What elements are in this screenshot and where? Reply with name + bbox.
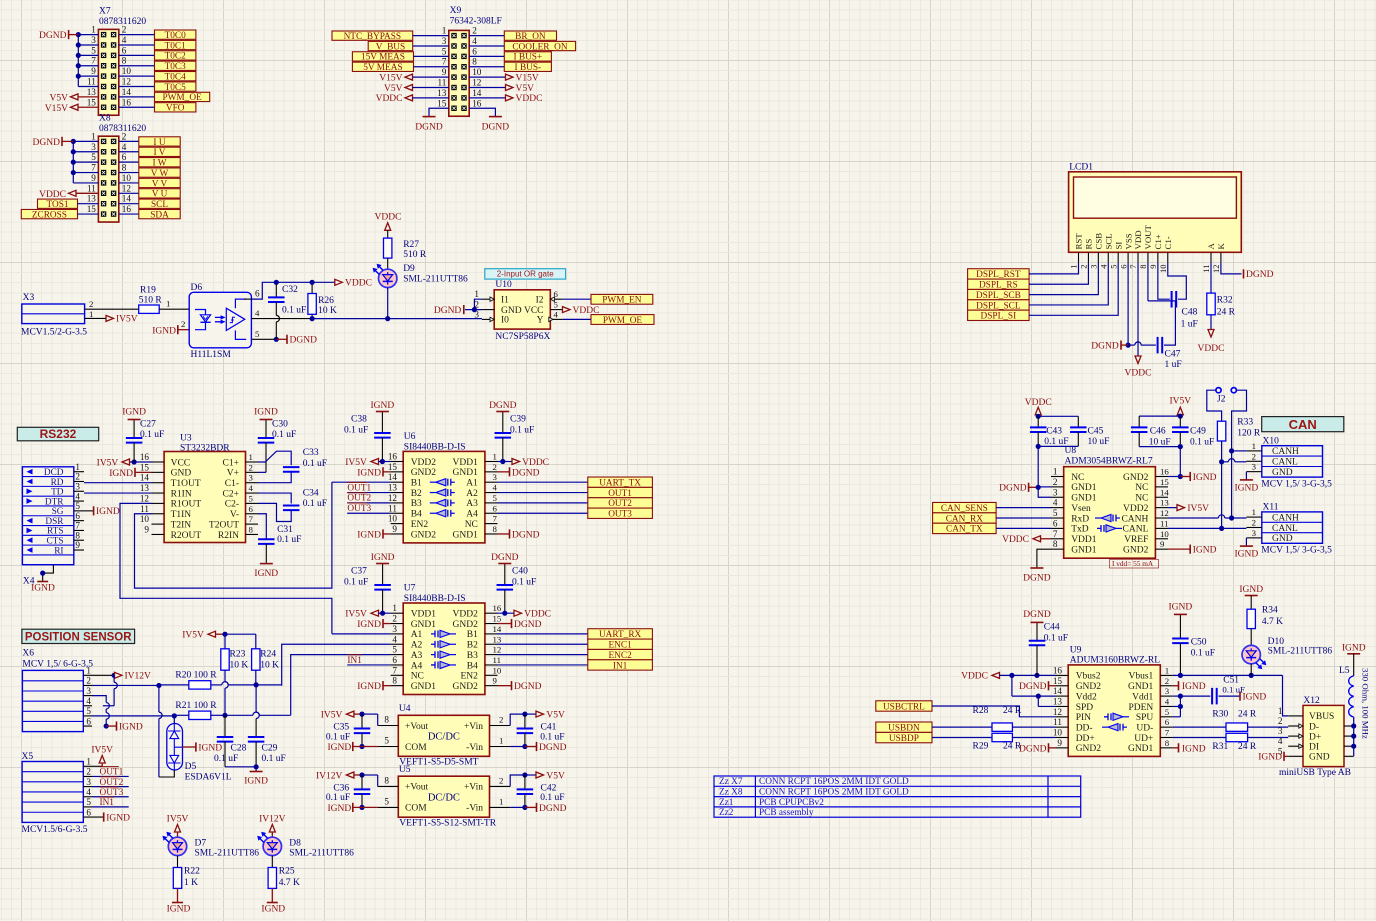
svg-text:16: 16 (122, 97, 132, 107)
svg-text:C37: C37 (351, 567, 367, 577)
wire R20 output to U7 A2 (211, 682, 282, 688)
svg-text:10 K: 10 K (260, 661, 279, 671)
wire U7 B1 (498, 633, 588, 635)
resistor R22 1 K (173, 856, 200, 889)
svg-text:SDA: SDA (150, 210, 169, 220)
power port V5V at X9 pin12 (469, 84, 534, 94)
svg-text:VDDC: VDDC (961, 672, 988, 682)
svg-text:GND: GND (1309, 753, 1330, 763)
net label PWM_OE (155, 92, 210, 103)
power port IGND at X10 (1235, 480, 1259, 493)
svg-text:C36: C36 (333, 783, 349, 793)
svg-text:A3: A3 (411, 651, 423, 661)
svg-text:C43: C43 (1046, 426, 1062, 436)
svg-text:7: 7 (91, 163, 96, 173)
svg-text:9: 9 (1148, 265, 1158, 269)
power port DGND at U6 GND1 pin2 (498, 467, 540, 478)
svg-text:13: 13 (87, 87, 97, 97)
svg-text:IGND: IGND (244, 777, 268, 787)
svg-text:Vbus2: Vbus2 (1076, 672, 1101, 682)
svg-text:5: 5 (392, 645, 397, 655)
connector X7 0878311620 (87, 7, 147, 116)
svg-text:11: 11 (1201, 265, 1211, 273)
svg-text:R1IN: R1IN (171, 489, 192, 499)
svg-text:VDDC: VDDC (345, 279, 372, 289)
power supply U4 VEFT1-S5-D5-SMT (378, 704, 511, 768)
jumper J2 (1207, 388, 1247, 451)
svg-text:GND1: GND1 (453, 468, 479, 478)
svg-text:IGND: IGND (1169, 603, 1193, 613)
wire DGND to U10 pins 1,2 (465, 299, 482, 312)
wire CANH net to X10 pin1 (1229, 448, 1246, 453)
power port IV5V at U3 VCC (97, 458, 130, 468)
svg-text:24 R: 24 R (1238, 710, 1257, 720)
svg-text:ESDA6V1L: ESDA6V1L (185, 773, 232, 783)
svg-text:R28: R28 (973, 706, 989, 716)
svg-text:1: 1 (493, 452, 497, 462)
svg-text:D10: D10 (1268, 637, 1285, 647)
connector X10 MCV 1,5/ 3-G-3,5 (1246, 437, 1332, 490)
wire X3 pin2 to R19 (85, 308, 139, 310)
svg-text:COM: COM (405, 743, 427, 753)
net label OUT3 (588, 508, 653, 519)
resistor R24 10 K (252, 649, 280, 671)
svg-text:IGND: IGND (371, 553, 395, 563)
svg-text:5: 5 (384, 736, 389, 746)
svg-text:DGND: DGND (1023, 610, 1051, 620)
wire U7 A3 from R21 (291, 655, 391, 716)
wire X6 pin5 to R21 (92, 713, 177, 718)
power port VDDC at X9 pin13 (376, 94, 449, 104)
net label SDA (139, 209, 180, 220)
svg-text:1: 1 (91, 25, 96, 35)
power port IGND above C38 (371, 401, 395, 412)
svg-text:A1: A1 (466, 479, 478, 489)
svg-text:EN2: EN2 (411, 520, 429, 530)
svg-text:11: 11 (1160, 518, 1168, 528)
svg-text:5: 5 (86, 797, 91, 807)
svg-text:V5V: V5V (546, 771, 565, 781)
svg-text:6: 6 (1165, 717, 1170, 727)
svg-text:DGND: DGND (33, 138, 61, 148)
wire X10 GND to IGND (1245, 472, 1247, 480)
svg-text:V15V: V15V (45, 104, 68, 114)
svg-text:Zz X8: Zz X8 (719, 788, 743, 798)
svg-text:SI8440BB-D-IS: SI8440BB-D-IS (404, 443, 466, 453)
power port IGND above R34 (1239, 585, 1263, 609)
svg-text:MCV1.5/6-G-3.5: MCV1.5/6-G-3.5 (22, 825, 88, 835)
svg-text:2: 2 (493, 462, 497, 472)
svg-text:U8: U8 (1065, 446, 1077, 456)
net label ENC2 (588, 649, 653, 660)
power port IGND above C50 (1169, 603, 1193, 615)
svg-text:DGND: DGND (539, 743, 567, 753)
net label ZCROSS at X8 pin15 (21, 209, 98, 220)
wire DSPL_RS to LCD pin2 (1029, 263, 1088, 285)
svg-text:DCD: DCD (44, 468, 64, 478)
capacitor C27 0.1 uF (126, 419, 164, 462)
capacitor C28 0.1 uF (214, 715, 247, 767)
svg-text:NC7SP58P6X: NC7SP58P6X (495, 332, 550, 342)
svg-text:1: 1 (499, 797, 503, 807)
svg-text:GND2: GND2 (1076, 744, 1102, 754)
svg-text:UD+: UD+ (1134, 734, 1153, 744)
net label USBDP (876, 732, 992, 743)
svg-text:U6: U6 (404, 432, 416, 442)
svg-text:DGND: DGND (489, 401, 517, 411)
svg-text:15: 15 (388, 462, 398, 472)
power port V15V at X7 pin15 (45, 104, 99, 114)
svg-text:GND: GND (1272, 468, 1293, 478)
svg-text:IN1: IN1 (613, 661, 628, 671)
power port VDDC below R32 (1198, 330, 1225, 355)
svg-text:GND: GND (501, 306, 522, 316)
svg-text:R2IN: R2IN (218, 531, 239, 541)
svg-text:2: 2 (122, 25, 127, 35)
svg-text:SML-211UTT86: SML-211UTT86 (1268, 646, 1333, 656)
ground DGND below X9 right (482, 117, 510, 133)
wire R19 to D6 pin1 (159, 299, 189, 310)
svg-text:IN1: IN1 (347, 656, 362, 666)
svg-text:B4: B4 (467, 661, 478, 671)
power port VDDC above C43 (1025, 398, 1052, 417)
svg-text:3: 3 (1252, 528, 1257, 538)
net label 5V MEAS (352, 62, 448, 73)
svg-text:USBCTRL: USBCTRL (883, 702, 925, 712)
svg-text:X7: X7 (99, 7, 111, 17)
wire X8 pin4 (119, 151, 139, 153)
power port DGND above C39 (489, 401, 517, 412)
svg-text:R34: R34 (1262, 606, 1278, 616)
svg-text:CANH: CANH (1121, 514, 1148, 524)
svg-text:RI: RI (54, 546, 63, 556)
svg-text:5: 5 (249, 493, 254, 503)
svg-text:C30: C30 (272, 419, 288, 429)
isolator U6 SI8440BB-D-IS (388, 432, 498, 543)
svg-text:C47: C47 (1165, 349, 1181, 359)
svg-text:16: 16 (1160, 467, 1169, 477)
svg-text:0.1 uF: 0.1 uF (540, 732, 564, 742)
wire C28 C29 common to IGND (225, 764, 259, 771)
resistor R30 24 R (1173, 710, 1257, 732)
svg-text:VDDC: VDDC (1198, 344, 1225, 354)
wire CANL net to X10 pin2 (1222, 459, 1247, 462)
svg-text:2: 2 (89, 299, 93, 309)
svg-text:11: 11 (437, 78, 446, 88)
svg-text:4: 4 (392, 634, 397, 644)
svg-text:V15V: V15V (516, 73, 539, 83)
svg-text:C45: C45 (1088, 426, 1104, 436)
svg-text:VCC: VCC (524, 306, 544, 316)
svg-text:MCV 1,5/ 3-G-3,5: MCV 1,5/ 3-G-3,5 (1261, 546, 1332, 556)
svg-text:12: 12 (1053, 707, 1063, 717)
svg-text:OUT2: OUT2 (347, 494, 371, 504)
svg-text:15: 15 (87, 204, 97, 214)
svg-text:GND1: GND1 (453, 530, 479, 540)
svg-text:VDD2: VDD2 (1123, 504, 1149, 514)
svg-text:8: 8 (384, 776, 389, 786)
svg-text:Zz1: Zz1 (719, 798, 734, 808)
power port V5V at U5 +Vin (510, 771, 565, 786)
LED D9 SML-211UTT86 (373, 258, 468, 321)
svg-text:B1: B1 (411, 479, 422, 489)
svg-text:C1-: C1- (225, 479, 239, 489)
svg-text:0.1 uF: 0.1 uF (510, 425, 534, 435)
LED D10 SML-211UTT86 (1242, 629, 1332, 676)
svg-text:miniUSB Type AB: miniUSB Type AB (1279, 768, 1351, 778)
ground DGND below X9 left (415, 117, 443, 133)
resistor R25 4.7 K (268, 856, 300, 889)
svg-text:OUT1: OUT1 (100, 768, 124, 778)
capacitor C47 1 uF (1128, 301, 1182, 370)
svg-text:COM: COM (405, 804, 427, 814)
wire X11 GND to IGND (1245, 538, 1247, 546)
power port IGND at U9 GND1 pin8 (1173, 743, 1206, 754)
connector X5 MCV1.5/6-G-3.5 (22, 752, 93, 835)
svg-text:DGND: DGND (1023, 574, 1051, 584)
svg-text:DGND: DGND (1019, 744, 1047, 754)
svg-text:3: 3 (1053, 487, 1058, 497)
svg-text:10 uF: 10 uF (1149, 437, 1171, 447)
svg-text:C31: C31 (277, 525, 293, 535)
svg-text:DGND: DGND (999, 484, 1027, 494)
power port DGND at D6 pin5 (276, 335, 317, 346)
power port IV5V at U7 VDD1 (345, 610, 390, 620)
svg-text:ZCROSS: ZCROSS (32, 210, 67, 220)
svg-text:B2: B2 (411, 489, 422, 499)
svg-text:L5: L5 (1339, 666, 1350, 676)
svg-text:OUT2: OUT2 (100, 778, 124, 788)
svg-text:C28: C28 (231, 744, 247, 754)
svg-text:14: 14 (122, 87, 132, 97)
svg-text:C48: C48 (1182, 307, 1198, 317)
svg-text:C27: C27 (140, 419, 156, 429)
net label 15V MEAS (352, 52, 448, 63)
svg-text:DSR: DSR (45, 517, 64, 527)
net label I W (139, 158, 180, 169)
svg-text:1: 1 (75, 462, 80, 472)
svg-text:X5: X5 (22, 752, 34, 762)
svg-text:R25: R25 (279, 867, 295, 877)
svg-text:IGND: IGND (122, 408, 146, 418)
svg-text:IGND: IGND (261, 905, 285, 915)
svg-text:D5: D5 (185, 762, 197, 772)
power port IV12V at U5 +Vout (316, 771, 378, 786)
net label V U (139, 189, 180, 200)
TVS diode D5 ESDA6V1L (167, 724, 232, 783)
capacitor C48 1 uF (1158, 263, 1198, 330)
net label T0C3 (155, 61, 196, 72)
svg-text:EN2: EN2 (460, 672, 478, 682)
resistor R32 24 R (1207, 263, 1236, 318)
svg-text:0.1 uF: 0.1 uF (277, 535, 301, 545)
net label I BUS- (469, 62, 551, 73)
svg-text:IGND: IGND (152, 326, 176, 336)
svg-text:A2: A2 (411, 641, 423, 651)
svg-text:11: 11 (1053, 717, 1062, 727)
power port IGND at C51 (1240, 692, 1266, 703)
svg-text:GND1: GND1 (411, 682, 437, 692)
capacitor C43 0.1 uF (1030, 414, 1069, 449)
svg-text:14: 14 (1160, 487, 1169, 497)
svg-text:DC/DC: DC/DC (428, 792, 460, 803)
svg-text:5: 5 (442, 46, 447, 56)
svg-text:4: 4 (493, 483, 498, 493)
capacitor C30 0.1 uF (258, 419, 297, 472)
svg-text:2: 2 (1278, 716, 1283, 726)
resistor R20 100 R (159, 671, 217, 690)
svg-text:6: 6 (86, 716, 91, 726)
svg-text:IV5V: IV5V (321, 710, 343, 720)
svg-text:SI: SI (1113, 242, 1123, 250)
svg-text:SCL: SCL (1103, 233, 1113, 249)
capacitor C41 0.1 uF at U4 (510, 714, 564, 749)
svg-text:B2: B2 (467, 641, 478, 651)
svg-text:24 R: 24 R (1217, 307, 1236, 317)
svg-text:9: 9 (493, 676, 498, 686)
wire D6 pin5 to DGND (252, 329, 279, 342)
svg-text:VDD: VDD (1133, 230, 1143, 249)
LCD module LCD1 (1069, 162, 1242, 273)
power port VDDC at U6 VDD1 (498, 458, 550, 468)
power port IGND at X12 GND (1258, 752, 1288, 763)
wire X4 RD to U3 T1OUT (84, 482, 152, 484)
net label I BUS+ (469, 52, 551, 63)
svg-text:SI8440BB-D-IS: SI8440BB-D-IS (404, 594, 466, 604)
wire X8 pin8 (119, 172, 139, 174)
svg-text:GND1: GND1 (1071, 545, 1097, 555)
svg-text:8: 8 (472, 57, 477, 67)
svg-text:+Vout: +Vout (405, 722, 428, 732)
svg-text:PDEN: PDEN (1128, 703, 1153, 713)
svg-text:V V: V V (152, 179, 168, 189)
svg-text:IGND: IGND (254, 408, 278, 418)
svg-text:CONN RCPT 16POS 2MM IDT GOLD: CONN RCPT 16POS 2MM IDT GOLD (759, 788, 909, 798)
power port V5V at X7 pin13 (50, 94, 99, 104)
svg-text:GND1: GND1 (1071, 494, 1097, 504)
svg-text:7: 7 (392, 665, 397, 675)
svg-text:T2IN: T2IN (171, 520, 192, 530)
svg-text:8: 8 (1138, 265, 1148, 269)
svg-text:2: 2 (392, 614, 397, 624)
svg-text:1: 1 (1165, 665, 1169, 675)
svg-text:9: 9 (75, 540, 80, 550)
power port VDDC at X8 pin11 (39, 190, 98, 200)
svg-text:J2: J2 (1217, 395, 1226, 405)
svg-text:0.1 uF: 0.1 uF (272, 430, 296, 440)
svg-text:U5: U5 (399, 765, 411, 775)
wire LCD VOUT to C47 (1147, 263, 1149, 301)
wire X7 pin6 (119, 54, 155, 56)
wire R32 to VDDC (1210, 315, 1212, 331)
svg-text:14: 14 (122, 194, 132, 204)
svg-text:GND2: GND2 (453, 620, 479, 630)
svg-text:1: 1 (86, 666, 91, 676)
svg-text:IGND: IGND (198, 743, 222, 753)
svg-text:0.1 uF: 0.1 uF (262, 754, 286, 764)
note I vdd= 55 mA (1110, 559, 1159, 568)
svg-text:1: 1 (89, 309, 93, 319)
svg-text:2: 2 (1252, 517, 1256, 527)
capacitor C51 0.1 uF (1180, 676, 1245, 705)
svg-text:R27: R27 (403, 240, 419, 250)
svg-text:IN1: IN1 (100, 798, 115, 808)
power port VDDC at LCD VDD (1125, 356, 1152, 379)
wire D6 pin4 output (252, 308, 482, 319)
ground DGND below U8 pin8 (1023, 568, 1051, 584)
connector X4 DB9 (22, 462, 84, 565)
svg-text:16: 16 (122, 204, 132, 214)
svg-text:T0C0: T0C0 (165, 31, 187, 41)
wire X9 pin16 to ground (469, 108, 495, 116)
svg-text:2-Input OR gate: 2-Input OR gate (497, 270, 554, 279)
capacitor C46 10 uF (1131, 416, 1180, 447)
wire U6 A4 (498, 512, 588, 514)
wire X4 ground stub (40, 565, 53, 582)
svg-text:2: 2 (499, 776, 503, 786)
svg-text:VEFT1-S5-D5-SMT: VEFT1-S5-D5-SMT (399, 758, 478, 768)
power port IGND at X4 SG (84, 506, 120, 517)
capacitor C44 0.1 uF (1029, 622, 1068, 675)
inductor L5 330 Ohm 100 MHz (1339, 666, 1371, 739)
svg-text:7: 7 (442, 57, 447, 67)
svg-text:Zz X7: Zz X7 (719, 777, 743, 787)
svg-text:DSPL_SI: DSPL_SI (981, 312, 1017, 322)
connector X12 miniUSB Type AB (1278, 696, 1351, 778)
wire U7 A2 from R20 (282, 644, 391, 686)
svg-text:2: 2 (86, 767, 91, 777)
svg-text:D6: D6 (191, 283, 203, 293)
svg-text:U3: U3 (180, 434, 192, 444)
svg-text:C29: C29 (262, 744, 278, 754)
svg-text:8: 8 (249, 524, 254, 534)
svg-text:D-: D- (1309, 722, 1319, 732)
svg-text:1 uF: 1 uF (1165, 360, 1182, 370)
wire DSPL_RST to LCD pin1 (1029, 263, 1078, 274)
wire IV5V rail to U8 GND2 pin16 (1168, 447, 1183, 480)
connector X6 MCV 1,5/ 6-G-3,5 (22, 649, 93, 732)
svg-text:TD: TD (51, 488, 64, 498)
svg-text:DGND: DGND (1091, 341, 1119, 351)
svg-text:C33: C33 (303, 448, 319, 458)
svg-text:CANL: CANL (1272, 458, 1298, 468)
svg-text:ADM3054BRWZ-RL7: ADM3054BRWZ-RL7 (1065, 457, 1153, 467)
svg-text:1: 1 (474, 289, 479, 299)
svg-text:DGND: DGND (1019, 682, 1047, 692)
svg-text:0.1 uF: 0.1 uF (344, 577, 368, 587)
svg-text:6: 6 (493, 503, 498, 513)
power port IGND at U8 GND2 pin16 (1180, 472, 1216, 483)
svg-text:CANH: CANH (1272, 447, 1299, 457)
wire X8 pin12 (119, 192, 139, 194)
svg-text:DGND: DGND (415, 123, 443, 133)
svg-text:DGND: DGND (514, 682, 542, 692)
svg-text:9: 9 (144, 524, 149, 534)
svg-text:13: 13 (140, 483, 150, 493)
ground IGND below R22 (167, 888, 191, 914)
svg-text:VDDC: VDDC (375, 213, 402, 223)
svg-text:K: K (1216, 243, 1226, 250)
svg-text:2: 2 (122, 131, 127, 141)
svg-text:X11: X11 (1263, 503, 1279, 513)
svg-text:4: 4 (249, 483, 254, 493)
resistor R31 24 R (1173, 733, 1257, 752)
svg-text:ST3232BDR: ST3232BDR (180, 444, 230, 454)
svg-text:C35: C35 (333, 723, 349, 733)
net label T0C2 (155, 51, 196, 62)
power port DGND at X8 pin1 (33, 137, 74, 148)
svg-text:B3: B3 (467, 651, 478, 661)
